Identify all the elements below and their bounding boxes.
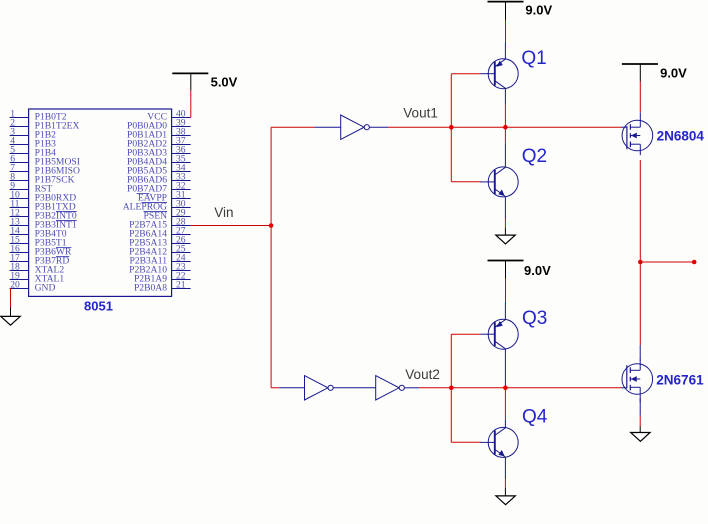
svg-text:Q2: Q2 [522, 146, 547, 167]
svg-text:Vin: Vin [214, 205, 233, 220]
svg-text:2N6761: 2N6761 [656, 373, 704, 388]
svg-text:21: 21 [176, 279, 186, 290]
svg-text:Vout1: Vout1 [403, 106, 438, 121]
svg-text:2N6804: 2N6804 [657, 128, 705, 143]
svg-text:9.0V: 9.0V [660, 65, 687, 80]
svg-text:5.0V: 5.0V [211, 75, 238, 90]
svg-text:Vout2: Vout2 [405, 367, 440, 382]
svg-text:9.0V: 9.0V [525, 2, 552, 17]
svg-text:20: 20 [10, 279, 20, 290]
svg-text:Q1: Q1 [521, 48, 546, 69]
svg-text:Q3: Q3 [522, 308, 547, 329]
svg-text:P2B0A8: P2B0A8 [134, 283, 167, 294]
svg-text:9.0V: 9.0V [524, 263, 551, 278]
svg-text:Q4: Q4 [522, 407, 548, 428]
svg-text:8051: 8051 [84, 299, 113, 314]
svg-text:GND: GND [35, 283, 56, 294]
